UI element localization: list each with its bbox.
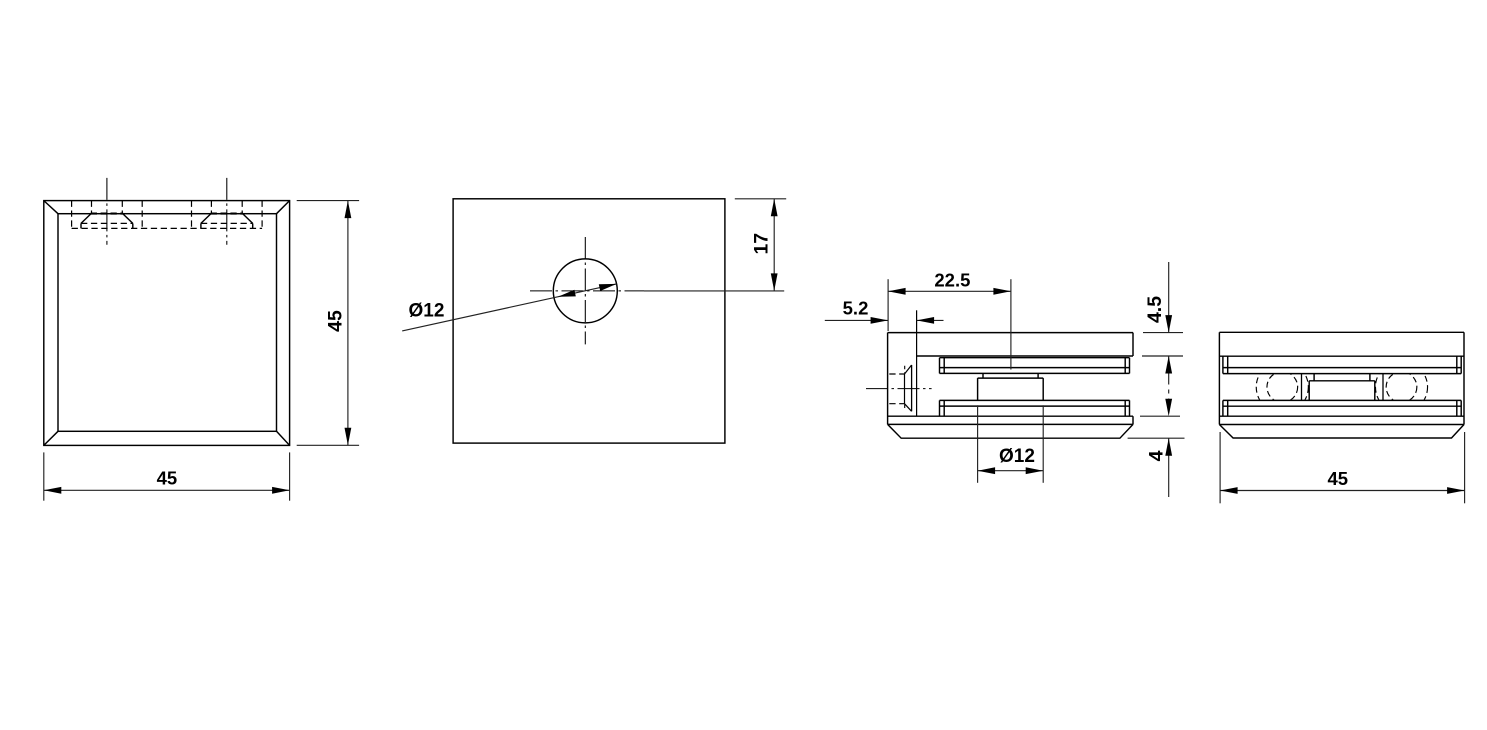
view3 dimension 4.5 - upper arrow shaft: [1168, 262, 1170, 333]
svg-text:Ø12: Ø12: [999, 446, 1035, 467]
view3 dimension 4 - arrowhead: [1165, 438, 1172, 456]
view4 body right edge: [1463, 332, 1465, 424]
view3 dimension Ø12 - left arrowhead: [978, 467, 996, 474]
view1 screw 1 countersunk head cone right side: [123, 214, 133, 223]
view4 upper glass right arris line: [1456, 356, 1458, 373]
view3 dimension 22.5 - right extension line (boss centerline): [1010, 279, 1012, 369]
view2 dimension 17 - dimension line: [773, 199, 775, 291]
view3 upper glass right arris line: [1124, 358, 1126, 374]
view3 dimension 4.5 - lower extension line: [1142, 355, 1183, 357]
view1 screw 1 head bottom hidden edge: [81, 222, 133, 224]
view4 lower glass left end edge: [1222, 400, 1224, 416]
view4 screw 1 hidden hole circle: [1267, 372, 1298, 403]
view3 boss neck right edge: [1037, 373, 1039, 378]
view4 top slab bottom edge: [1219, 355, 1464, 357]
view2 extension line from hole center to dimension 17: [644, 290, 784, 292]
view3 upper glass mid (arris) edge: [940, 367, 1130, 369]
view4 upper glass left end edge: [1222, 356, 1224, 373]
view3 body top edge: [888, 332, 1133, 334]
view3 screw centerline: [866, 388, 932, 390]
view1 screw 1 hidden shank hole right edge: [121, 201, 123, 214]
view1 screw 1 head top edge (dashed over inner edge): [91, 213, 123, 215]
view4 lower glass top edge: [1223, 399, 1461, 401]
view4 lower glass left arris line: [1227, 400, 1229, 416]
view4 upper glass mid edge: [1223, 367, 1461, 369]
view2 dimension Ø12 - leader line: [402, 284, 616, 331]
view1 screw 1 head rim right edge: [132, 223, 134, 228]
view1 screw 2 head rim right edge: [252, 223, 254, 228]
view3 dimension 4.5 - upper extension line: [1143, 332, 1183, 334]
view1 chamfer diagonal top-right: [277, 201, 290, 214]
view3 dimension 4 - bottom extension line: [1128, 437, 1185, 439]
view1 screw 1 hidden counterbore right edge: [141, 201, 143, 229]
view4 body bottom edge: [1219, 424, 1464, 426]
view3 screw hidden hole upper edge: [889, 373, 904, 375]
view1 dimension 45 right - top arrowhead: [345, 201, 352, 219]
view4 center boss neck left edge: [1313, 374, 1315, 381]
view1 screw 1 hidden counterbore left edge: [71, 201, 73, 229]
view3 dimension Ø12 - right arrowhead: [1026, 467, 1044, 474]
view3 screw head hidden edge lower segment: [904, 405, 906, 412]
view3 dimension 5.2 - right arrow shaft: [917, 319, 944, 321]
view3 lower glass top edge: [940, 399, 1130, 401]
view3 screw head hidden edge upper segment: [904, 366, 906, 373]
view3 dimension 4 - arrow shaft: [1168, 438, 1170, 497]
view1 screw 1 head rim left edge: [80, 223, 82, 228]
view3 screw head cone upper side: [905, 365, 912, 374]
view4 center boss flange left edge: [1308, 381, 1310, 401]
view4 lower glass right end edge: [1460, 400, 1462, 416]
view4 dimension 45 - left extension line: [1219, 432, 1221, 503]
view3 lower glass right arris line: [1124, 400, 1126, 416]
view4 lower glass right arris line: [1456, 400, 1458, 416]
view1 screw 2 hidden shank hole right edge: [241, 201, 243, 214]
view3 upper glass top edge: [940, 357, 1130, 359]
view1 screw 1 hidden shank hole left edge: [91, 201, 93, 214]
view3 dimension Ø12 - dimension line: [978, 470, 1044, 472]
view2 dimension Ø12 - lower-left arrowhead: [558, 290, 576, 297]
view3 top slab bottom edge: [917, 355, 1133, 357]
view1 screw 1 centerline: [106, 178, 108, 245]
view3 top slab right edge: [1132, 333, 1134, 356]
svg-text:17: 17: [750, 233, 772, 255]
view3 dimension 5.2 - left arrow shaft: [825, 319, 888, 321]
view4 base skirt: [1219, 425, 1464, 439]
view1 screw 2 hidden counterbore right edge: [261, 201, 263, 229]
view3 dimension 4.5 - lower arrowhead: [1165, 356, 1172, 374]
view3 glass thickness down arrowhead: [1165, 399, 1172, 417]
view1 inner square (chamfer inner edge): [58, 214, 277, 432]
view1 dimension 45 bottom - right extension line: [289, 452, 291, 500]
view3 dimension 22.5 - left arrowhead: [888, 288, 906, 295]
view3 screw hidden hole lower edge: [889, 403, 904, 405]
svg-text:45: 45: [157, 468, 178, 489]
view4 center boss flange top edge: [1309, 380, 1375, 382]
view2 hole horizontal centerline: [530, 290, 644, 292]
view1 screw 2 head bottom hidden edge: [201, 222, 253, 224]
view4 screw 2 hidden countersink circle: [1375, 361, 1427, 413]
view2 hole circle: [553, 259, 617, 323]
view3 boss top edge: [978, 377, 1044, 379]
view1 screw 2 head rim left edge: [200, 223, 202, 228]
view4 center boss flange right edge: [1374, 381, 1376, 401]
view4 pocket left edge: [1301, 374, 1303, 401]
view4 lower glass mid edge: [1223, 405, 1461, 407]
view3 body left edge: [887, 333, 889, 425]
view2 dimension 17 - bottom arrowhead: [771, 273, 778, 291]
view4 upper glass left arris line: [1227, 356, 1229, 373]
view1 dimension 45 bottom - left arrowhead: [44, 487, 62, 494]
view3 screw head large-end edge: [911, 365, 913, 411]
view1 hidden back-plate edge line: [72, 227, 263, 229]
view1 screw 1 countersunk head cone left side: [81, 214, 91, 223]
view3 upper glass left arris line: [943, 358, 945, 374]
view1 chamfer diagonal top-left: [44, 201, 58, 214]
view3 dimension 5.2 - right arrowhead: [917, 317, 935, 324]
view3 lower glass mid (arris) edge: [940, 405, 1130, 407]
svg-text:4: 4: [1145, 450, 1167, 461]
view3 upper glass bottom edge: [940, 372, 1130, 374]
svg-text:45: 45: [1328, 468, 1349, 489]
view2 dimension 17 - top extension line: [735, 198, 786, 200]
view1 screw 2 countersunk head cone left side: [201, 214, 211, 223]
view2 dimension Ø12 - upper-right arrowhead: [599, 284, 617, 291]
view3 upper glass right end edge: [1129, 358, 1131, 374]
view3 dimension Ø12 - left extension line: [977, 405, 979, 483]
view3 base skirt: [888, 424, 1133, 438]
view3 glass thickness arrow dashes: [1168, 390, 1170, 394]
view2 plate outline: [453, 199, 725, 443]
view1 dimension 45 right - dimension line: [347, 201, 349, 446]
view3 upper glass left end edge: [939, 358, 941, 374]
view3 dimension 22.5 - dimension line: [888, 290, 1011, 292]
svg-text:5.2: 5.2: [843, 298, 869, 319]
view3 boss right edge: [1042, 378, 1044, 400]
view4 body left edge: [1218, 332, 1220, 424]
view1 chamfer diagonal bottom-left: [44, 431, 58, 445]
view2 hole vertical centerline: [584, 237, 586, 344]
view4 pocket right edge: [1382, 374, 1384, 401]
view1 dimension 45 right - bottom arrowhead: [345, 428, 352, 446]
view3 dimension 4.5 - lower arrow shaft: [1168, 356, 1170, 385]
svg-text:45: 45: [324, 310, 346, 332]
view1 dimension 45 bottom - dimension line: [44, 489, 290, 491]
view4 body bottom inner face: [1219, 415, 1464, 417]
view3 lower glass left arris line: [943, 400, 945, 416]
view3 boss neck left edge: [982, 373, 984, 378]
view1 outer square (front view of clamp body): [44, 201, 290, 446]
view4 dimension 45 - left arrowhead: [1220, 487, 1238, 494]
view3 dimension 22.5 - left extension line: [887, 279, 889, 331]
svg-text:4.5: 4.5: [1144, 296, 1166, 323]
view3 screw head cone lower side: [905, 404, 912, 412]
view1 screw 2 head top edge (dashed over inner edge): [211, 213, 243, 215]
view3 body lower right edge: [1132, 416, 1134, 424]
view3 back plate inner face (and 5.2 extension): [916, 310, 918, 416]
view3 lower glass right end edge: [1129, 400, 1131, 416]
view4 upper glass bottom edge: [1223, 373, 1461, 375]
view1 dimension 45 right - bottom extension line: [297, 444, 359, 446]
view3 screw head small-end edge: [904, 374, 906, 404]
view1 dimension 45 right - top extension line: [297, 200, 359, 202]
view3 glass bottom extension line: [1140, 415, 1180, 417]
view1 dimension 45 bottom - left extension line: [43, 452, 45, 500]
view3 boss left edge: [977, 378, 979, 400]
view4 screw 1 hidden countersink circle: [1256, 361, 1308, 413]
view4 dimension 45 - right extension line: [1464, 432, 1466, 503]
view4 upper glass right end edge: [1460, 356, 1462, 373]
view1 screw 2 centerline: [226, 178, 228, 245]
view3 dimension 22.5 - right arrowhead: [993, 288, 1011, 295]
view1 screw 2 countersunk head cone right side: [243, 214, 253, 223]
view2 dimension 17 - top arrowhead: [771, 199, 778, 217]
view3 dimension Ø12 - right extension line: [1042, 405, 1044, 483]
view1 screw 2 hidden counterbore left edge: [191, 201, 193, 229]
view4 dimension 45 - dimension line: [1220, 490, 1465, 492]
view3 dimension 4.5 - upper arrowhead: [1165, 315, 1172, 333]
view1 chamfer diagonal bottom-right: [277, 431, 290, 445]
view4 screw 2 hidden hole circle: [1386, 372, 1417, 403]
view3 body bottom inner face: [888, 415, 1133, 417]
svg-text:Ø12: Ø12: [409, 301, 445, 322]
view3 body bottom edge: [888, 423, 1133, 425]
view4 center boss neck right edge: [1369, 374, 1371, 381]
view1 dimension 45 bottom - right arrowhead: [272, 487, 290, 494]
view1 screw 2 hidden shank hole left edge: [210, 201, 212, 214]
view4 dimension 45 - right arrowhead: [1447, 487, 1465, 494]
view3 dimension 5.2 - left arrowhead: [871, 317, 889, 324]
view4 body top edge: [1219, 331, 1464, 333]
view3 lower glass left end edge: [939, 400, 941, 416]
svg-text:22.5: 22.5: [934, 269, 970, 290]
